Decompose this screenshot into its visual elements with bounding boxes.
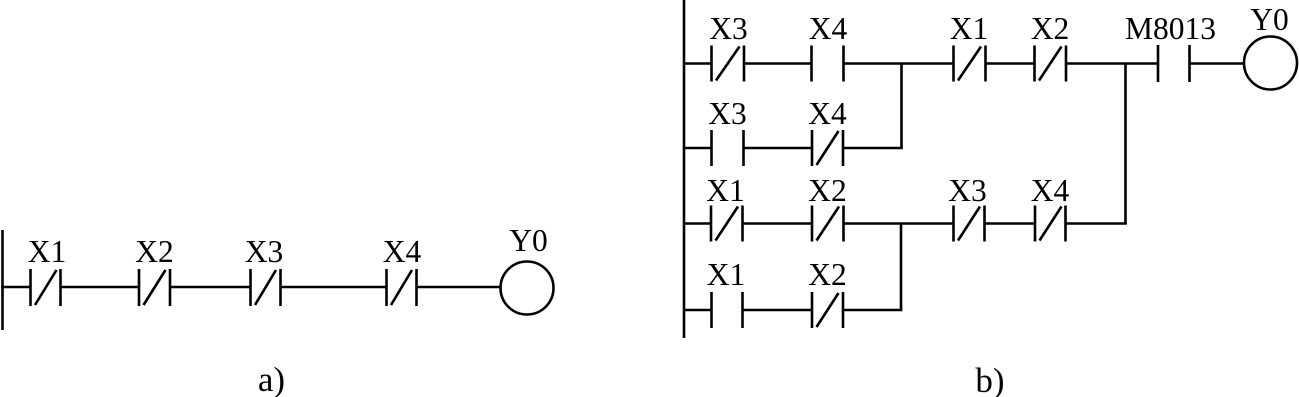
wire X1 to X2 (b rung1): [986, 62, 1035, 64]
label X1 (a): [28, 234, 67, 269]
svg-text:X4: X4: [809, 11, 848, 46]
label X4 (a): [383, 234, 422, 269]
svg-text:X1: X1: [706, 173, 745, 208]
wire X4 to junction column (b rung2): [843, 147, 903, 149]
wire X3 to X4 (b rung3): [985, 222, 1036, 224]
left power rail (diagram b): [683, 0, 686, 338]
caption a): [258, 360, 285, 397]
wire X4 to right junction column (b rung3): [1066, 222, 1127, 224]
wire X4 to X1 through junction (b rung1): [844, 62, 954, 64]
contact X4 NC (a): [387, 269, 417, 306]
label X2 (a): [135, 234, 174, 269]
svg-text:X4: X4: [808, 96, 847, 131]
wire X3 to X4 (a): [281, 286, 387, 288]
label Y0 (a): [509, 223, 548, 258]
wire rail to X3 (b rung1): [684, 62, 712, 64]
label X3 (b rung3): [948, 173, 987, 208]
label X1 (b rung1): [950, 11, 989, 46]
svg-text:b): b): [975, 361, 1004, 397]
coil Y0 (a): [501, 262, 554, 315]
label X3 (b rung1): [709, 11, 748, 46]
contact X1 NC (b rung3): [711, 206, 743, 242]
label X1 (b rung4): [707, 257, 746, 292]
wire X4 to coil (a): [417, 286, 501, 288]
wire X3 to X4 (b rung1): [744, 62, 812, 64]
svg-text:X3: X3: [948, 173, 987, 208]
wire rail to X1 (b rung4): [684, 309, 712, 311]
contact X2 NC (b rung1): [1035, 46, 1067, 82]
wire X3 to X4 (b rung2): [744, 147, 813, 149]
svg-text:X1: X1: [950, 11, 989, 46]
label X4 (b rung3): [1031, 173, 1070, 208]
svg-text:X3: X3: [245, 234, 284, 269]
contact X1 NC (b rung1): [954, 46, 986, 82]
label X3 (b rung2): [708, 96, 747, 131]
contact X4 NC (b rung2): [812, 130, 843, 166]
label X4 (b rung2): [808, 96, 847, 131]
wire X2 to X3 (a): [170, 286, 251, 288]
svg-text:X1: X1: [707, 257, 746, 292]
svg-text:Y0: Y0: [1250, 2, 1289, 37]
contact X2 NC (b rung4): [812, 292, 843, 328]
svg-text:X2: X2: [808, 257, 847, 292]
contact X1 NC (a): [31, 269, 61, 306]
svg-text:X3: X3: [708, 96, 747, 131]
svg-text:X1: X1: [28, 234, 67, 269]
svg-text:X3: X3: [709, 11, 748, 46]
contact X2 NC (a): [139, 269, 170, 306]
contact X1 NO (b rung4): [712, 292, 743, 328]
svg-text:X2: X2: [1031, 11, 1070, 46]
label X1 (b rung3): [706, 173, 745, 208]
contact X3 NC (b rung1): [712, 46, 745, 82]
label X2 (b rung4): [808, 257, 847, 292]
contact X4 NC (b rung3): [1035, 206, 1066, 242]
svg-text:X2: X2: [808, 173, 847, 208]
label M8013 (b rung1): [1125, 11, 1216, 46]
label X3 (a): [245, 234, 284, 269]
contact X2 NC (b rung3): [812, 206, 844, 242]
svg-text:Y0: Y0: [509, 223, 548, 258]
wire X1 to X2 (b rung4): [743, 309, 813, 311]
contact M8013 NO (b rung1): [1158, 45, 1190, 82]
contact X4 NO (b rung1): [812, 46, 844, 82]
wire X1 to X2 (b rung3): [743, 222, 813, 224]
wire M8013 to coil (b rung1): [1190, 62, 1245, 64]
contact X3 NC (a): [251, 269, 281, 306]
wire X2 to junction column (b rung4): [843, 309, 902, 311]
wire rail to X1 (b rung3): [684, 222, 711, 224]
svg-text:X2: X2: [135, 234, 174, 269]
wire rail to X3 (b rung2): [684, 147, 712, 149]
coil Y0 (b): [1244, 37, 1297, 90]
contact X3 NO (b rung2): [712, 130, 744, 166]
junction column rung1-rung2: [900, 64, 903, 149]
label X2 (b rung3): [808, 173, 847, 208]
wire X1 to X2 (a): [61, 286, 140, 288]
left power rail (diagram a): [1, 230, 4, 330]
label X2 (b rung1): [1031, 11, 1070, 46]
caption b): [975, 361, 1004, 397]
contact X3 NC (b rung3): [954, 206, 985, 242]
junction column rung1-rung3: [1124, 64, 1127, 224]
svg-text:X4: X4: [383, 234, 422, 269]
svg-text:a): a): [258, 360, 285, 397]
label Y0 (b): [1250, 2, 1289, 37]
wire rail to X1 (a): [1, 286, 31, 288]
label X4 (b rung1): [809, 11, 848, 46]
svg-text:X4: X4: [1031, 173, 1070, 208]
junction column rung3-rung4: [900, 224, 903, 311]
svg-text:M8013: M8013: [1125, 11, 1216, 46]
wire X2 to X3 through junction (b rung3): [844, 222, 954, 224]
wire X2 to M8013 through junction (b rung1): [1066, 62, 1158, 64]
